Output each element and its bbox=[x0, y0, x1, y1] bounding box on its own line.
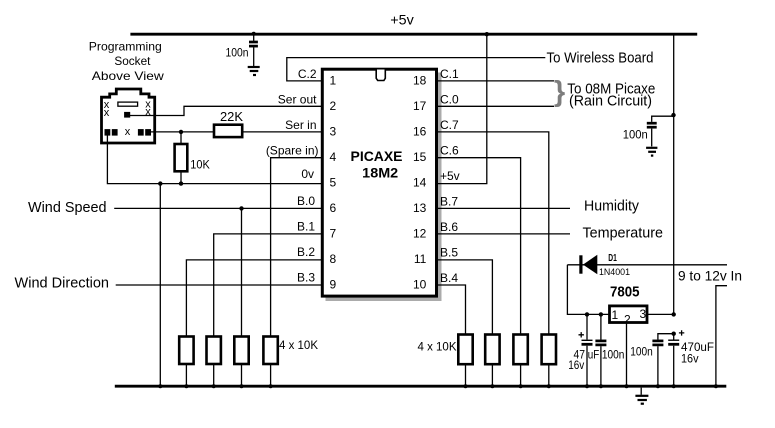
svg-text:B.2: B.2 bbox=[297, 245, 315, 259]
svg-text:x: x bbox=[145, 106, 151, 118]
svg-text:3: 3 bbox=[639, 307, 646, 321]
svg-text:16: 16 bbox=[413, 124, 427, 138]
svg-text:x: x bbox=[125, 126, 131, 138]
svg-text:B.5: B.5 bbox=[440, 246, 458, 260]
node: 0v drop junction bbox=[158, 181, 162, 185]
svg-text:Wind Direction: Wind Direction bbox=[15, 275, 110, 292]
wires: right resistor bottoms bbox=[466, 364, 549, 386]
0v bottom rail bbox=[115, 385, 727, 388]
svg-text:100n: 100n bbox=[623, 127, 648, 141]
wire: output caps branch bbox=[658, 334, 674, 340]
wire: Wind Direction / B.3 (pin 9) bbox=[116, 284, 321, 286]
svg-text:Ser in: Ser in bbox=[285, 118, 316, 132]
svg-text:Temperature: Temperature bbox=[583, 225, 664, 242]
IC U1 PICAXE 18M2 shadow bbox=[326, 73, 442, 302]
wire: 7805 pin 3 to output node bbox=[647, 313, 674, 315]
wire: +5v (pin 14) to rail bbox=[438, 36, 487, 184]
svg-text:B.3: B.3 bbox=[297, 271, 315, 285]
wire: C.1 (pin 18) bbox=[438, 80, 554, 82]
wire: B.0 drop to resistor bbox=[241, 208, 243, 336]
svg-text:B.6: B.6 bbox=[440, 220, 458, 234]
socket center pin bbox=[124, 112, 130, 118]
svg-text:18: 18 bbox=[413, 73, 427, 87]
svg-text:2: 2 bbox=[330, 99, 337, 113]
wire: C.2 (pin 1) to wireless board bbox=[287, 58, 546, 81]
pin numbers right 18-10 bbox=[413, 73, 427, 291]
capacitor 100n (right) bbox=[647, 116, 674, 146]
programming socket body bbox=[102, 89, 155, 143]
svg-text:6: 6 bbox=[330, 201, 337, 215]
wire: B.2 (pin 8) to resistor bbox=[186, 260, 321, 337]
svg-text:1: 1 bbox=[330, 73, 337, 87]
socket x marks bbox=[104, 99, 152, 139]
svg-text:C.1: C.1 bbox=[440, 67, 459, 81]
svg-text:7805: 7805 bbox=[610, 285, 640, 301]
socket bottom-left pins bbox=[105, 129, 111, 136]
regulator 7805 box bbox=[610, 306, 648, 323]
svg-text:16v: 16v bbox=[568, 358, 584, 372]
svg-text:100n: 100n bbox=[602, 348, 625, 362]
resistor 10K bbox=[175, 144, 188, 171]
svg-text:2: 2 bbox=[624, 313, 631, 327]
wire: 10K stub top bbox=[180, 132, 182, 144]
svg-text:4: 4 bbox=[330, 150, 337, 164]
svg-text:1N4001: 1N4001 bbox=[599, 267, 630, 278]
svg-text:14: 14 bbox=[413, 176, 427, 190]
ground (top-left) bbox=[248, 67, 260, 75]
capacitor C-top-left 100n bbox=[249, 32, 258, 66]
svg-text:D1: D1 bbox=[608, 253, 617, 264]
svg-text:B.0: B.0 bbox=[297, 194, 315, 208]
diode D1 wire bbox=[567, 264, 727, 266]
node: output cap branch bbox=[672, 332, 676, 336]
capacitor 100n (output) bbox=[652, 341, 663, 386]
resistor array right 4x10K bbox=[458, 335, 556, 365]
svg-text:100n: 100n bbox=[226, 46, 249, 60]
socket slot bbox=[118, 102, 138, 106]
pin labels right bbox=[440, 67, 460, 285]
svg-text:To Wireless Board: To Wireless Board bbox=[547, 49, 654, 66]
svg-text:10K: 10K bbox=[190, 158, 210, 172]
IC notch bbox=[376, 70, 385, 81]
node: pin1 caps junctions bbox=[585, 312, 589, 316]
wire: 12v input return tick bbox=[716, 286, 727, 386]
wires: left resistor bottoms bbox=[186, 364, 270, 386]
wire: C.0 (pin 17) bbox=[438, 105, 554, 107]
svg-text:8: 8 bbox=[330, 252, 337, 266]
svg-text:uF: uF bbox=[588, 348, 600, 362]
svg-text:16v: 16v bbox=[681, 351, 699, 365]
node: wind speed junction bbox=[239, 206, 243, 210]
wire: socket center pin to Ser out (pin 2) bbox=[128, 106, 321, 115]
capacitor 470uF bbox=[668, 330, 684, 386]
node: +5v rail junction bbox=[485, 32, 489, 36]
svg-text:100n: 100n bbox=[630, 345, 653, 359]
node: output junction bbox=[672, 312, 676, 316]
svg-text:13: 13 bbox=[413, 201, 427, 215]
svg-text:Wind Speed: Wind Speed bbox=[28, 199, 107, 216]
svg-text:(Spare in): (Spare in) bbox=[266, 144, 319, 158]
svg-text:10: 10 bbox=[413, 278, 427, 292]
capacitor 47uF bbox=[579, 314, 593, 386]
wire: C.6 (pin 15) to resistor bbox=[438, 158, 521, 335]
svg-text:B.7: B.7 bbox=[440, 195, 458, 209]
diode D1 bbox=[579, 255, 597, 275]
wire: B.5 (pin 11) to resistor bbox=[438, 260, 492, 335]
svg-text:C.6: C.6 bbox=[440, 144, 459, 158]
svg-text:Above View: Above View bbox=[92, 69, 164, 83]
node: right 100n branch bbox=[671, 113, 675, 117]
svg-text:C.2: C.2 bbox=[298, 67, 317, 81]
svg-text:(Rain Circuit): (Rain Circuit) bbox=[569, 93, 652, 110]
wire: Spare in (pin 4) down to resistor bbox=[271, 158, 321, 337]
svg-text:22K: 22K bbox=[220, 109, 243, 124]
wire: 7805 pin 2 to ground rail bbox=[626, 323, 628, 387]
svg-text:+5v: +5v bbox=[390, 11, 414, 27]
ground (bottom, main) bbox=[635, 388, 648, 404]
pin numbers left 1-9 bbox=[330, 73, 337, 291]
svg-text:11: 11 bbox=[414, 252, 427, 266]
svg-text:15: 15 bbox=[413, 150, 427, 164]
svg-text:PICAXE: PICAXE bbox=[351, 148, 403, 164]
svg-text:9: 9 bbox=[330, 278, 337, 292]
svg-text:Socket: Socket bbox=[114, 54, 151, 68]
wire: diode to regulator input bbox=[567, 265, 609, 315]
pin labels left bbox=[266, 67, 319, 285]
capacitor 100n (input) bbox=[595, 314, 606, 386]
svg-text:18M2: 18M2 bbox=[362, 165, 398, 181]
svg-text:B.4: B.4 bbox=[440, 271, 458, 285]
nodes on bottom rail bbox=[158, 384, 718, 388]
svg-text:7: 7 bbox=[330, 227, 337, 241]
wire: Wind Speed / B.0 (pin 6) bbox=[114, 207, 321, 209]
wire: 0v (pin 5) to socket bbox=[107, 133, 321, 184]
svg-text:x: x bbox=[104, 107, 110, 119]
svg-text:0v: 0v bbox=[301, 167, 314, 181]
svg-text:4 x 10K: 4 x 10K bbox=[418, 340, 457, 354]
svg-text:9 to 12v In: 9 to 12v In bbox=[678, 268, 742, 284]
svg-text:1: 1 bbox=[612, 308, 619, 322]
wire: B.6 Temperature (pin 12) bbox=[438, 233, 570, 235]
svg-text:Humidity: Humidity bbox=[584, 198, 639, 215]
resistor 22K bbox=[214, 125, 242, 137]
svg-text:Programming: Programming bbox=[89, 39, 162, 53]
socket bottom-right pins bbox=[138, 129, 144, 136]
wire: B.4 (pin 10) to resistor bbox=[438, 285, 466, 335]
IC U1 PICAXE 18M2 bbox=[322, 69, 436, 296]
svg-text:4 x 10K: 4 x 10K bbox=[279, 338, 318, 352]
svg-text:C.7: C.7 bbox=[440, 118, 459, 132]
+5v top rail bbox=[130, 33, 697, 36]
wire: 10K stub bottom bbox=[180, 171, 182, 183]
ground (right 100n) bbox=[646, 148, 657, 156]
svg-text:}: } bbox=[554, 76, 565, 108]
wire: regulator output vertical to +5v rail bbox=[673, 34, 675, 314]
wire: 22K to pin 3 bbox=[242, 131, 321, 133]
wire: socket right pins / Ser in to 22K bbox=[148, 131, 214, 133]
svg-text:+5v: +5v bbox=[440, 169, 460, 183]
node: 10K to 0v bbox=[179, 181, 183, 185]
svg-text:12: 12 bbox=[413, 227, 427, 241]
wire: B.7 Humidity (pin 13) bbox=[438, 207, 570, 209]
svg-text:C.0: C.0 bbox=[440, 92, 459, 106]
node: Ser in / 10K junction bbox=[179, 130, 183, 134]
svg-text:Ser out: Ser out bbox=[278, 92, 317, 106]
svg-text:3: 3 bbox=[330, 124, 337, 138]
svg-text:17: 17 bbox=[413, 99, 427, 113]
wire: B.1 (pin 7) to resistor bbox=[214, 234, 321, 337]
wire: C.7 (pin 16) to resistor bbox=[438, 132, 549, 335]
svg-text:5: 5 bbox=[330, 176, 337, 190]
Programming Socket caption bbox=[89, 39, 164, 83]
svg-text:B.1: B.1 bbox=[297, 219, 315, 233]
wire: 0v drop to ground rail bbox=[159, 184, 161, 386]
resistor array left 4x10K bbox=[179, 337, 278, 365]
